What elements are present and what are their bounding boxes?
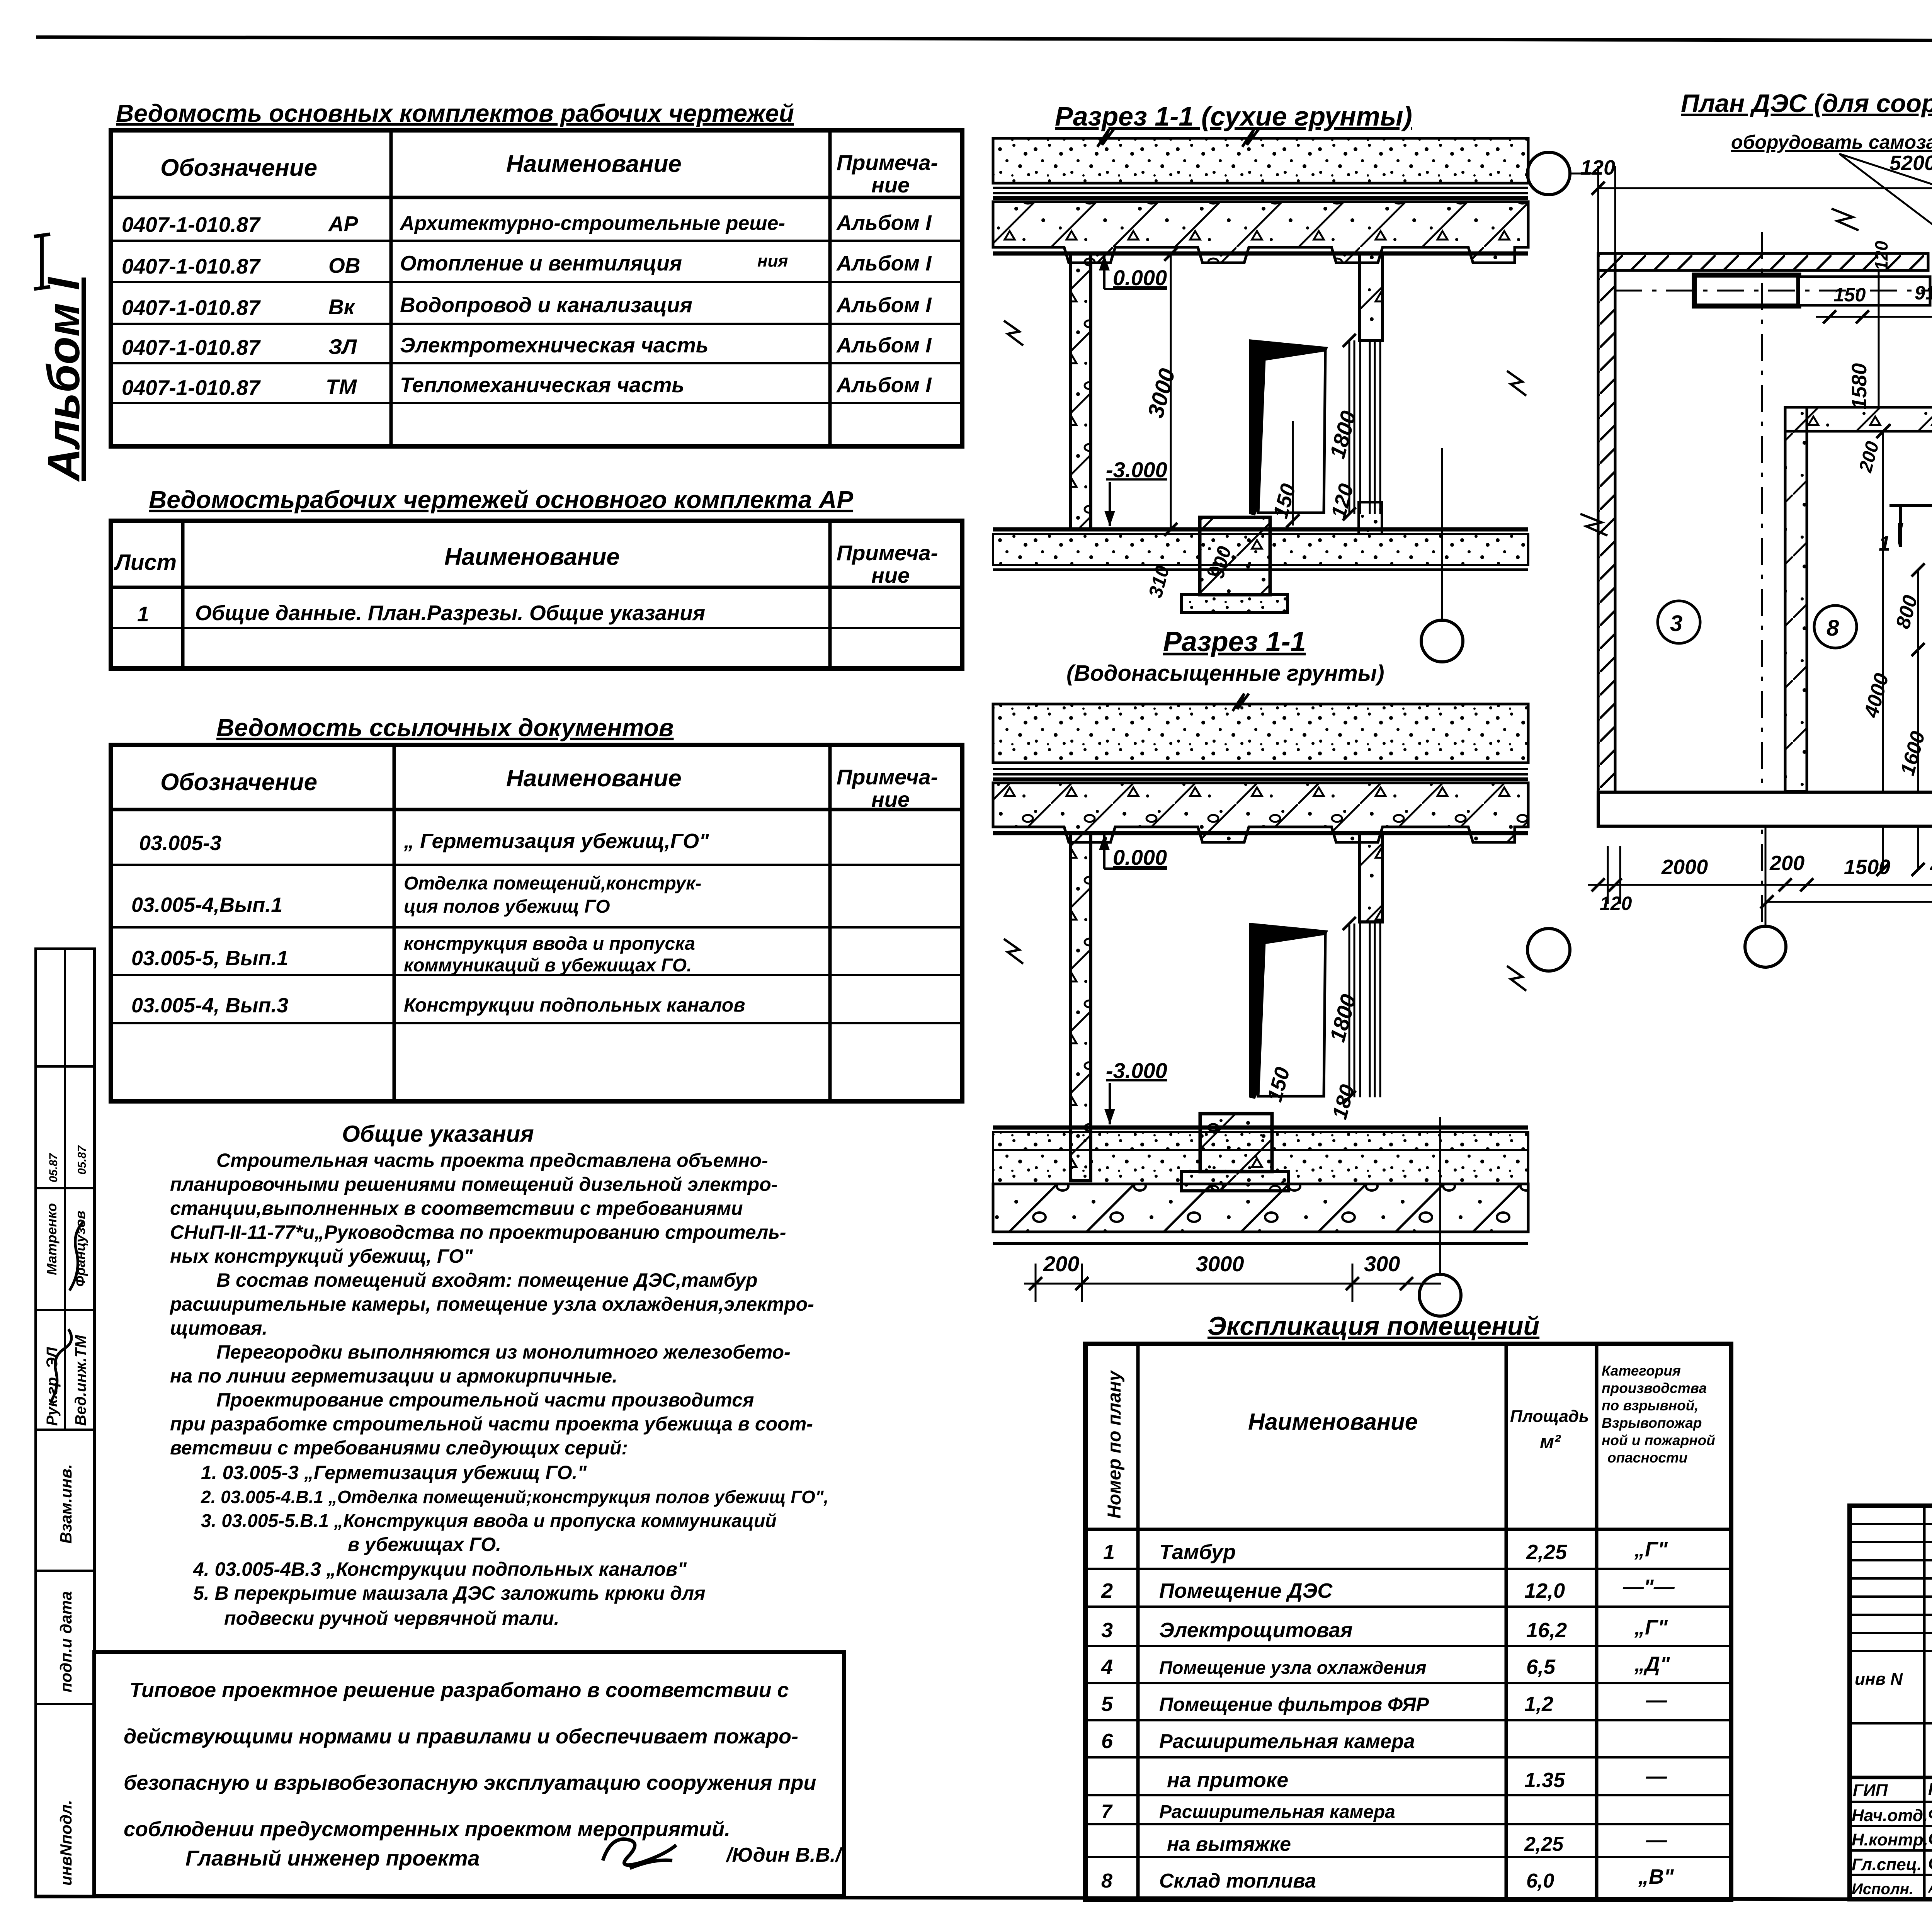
svg-text:м²: м² (1540, 1431, 1561, 1452)
section1 dim 1800 (1349, 340, 1350, 514)
svg-text:Общие указания: Общие указания (342, 1121, 534, 1147)
section mark 1 left (1889, 504, 1932, 507)
section2 foundation block (1200, 1114, 1272, 1172)
svg-text:Экспликация помещений: Экспликация помещений (1207, 1311, 1539, 1341)
svg-text:3. 03.005-5.В.1 „Конструкция в: 3. 03.005-5.В.1 „Конструкция ввода и про… (201, 1511, 777, 1531)
svg-text:Ведомость ссылочных документов: Ведомость ссылочных документов (216, 714, 674, 742)
svg-text:инвNподл.: инвNподл. (57, 1800, 75, 1886)
svg-text:6: 6 (1101, 1730, 1113, 1753)
svg-text:1: 1 (1103, 1541, 1115, 1564)
section2 roof lines (993, 769, 1528, 779)
svg-text:Разрез 1-1 (сухие грунты): Разрез 1-1 (сухие грунты) (1055, 101, 1412, 131)
section2 level -3.000 (1104, 1058, 1167, 1124)
svg-text:05.87: 05.87 (76, 1145, 88, 1175)
plan left wall (brick) (1598, 253, 1615, 793)
svg-text:0.000: 0.000 (1113, 845, 1167, 869)
svg-text:-3.000: -3.000 (1106, 457, 1167, 482)
svg-text:Наименование: Наименование (444, 544, 620, 570)
svg-text:„Г": „Г" (1634, 1538, 1668, 1561)
section2 left wall (1071, 833, 1091, 1181)
svg-text:безопасную и взрывобезопасную: безопасную и взрывобезопасную эксплуатац… (124, 1771, 816, 1794)
svg-text:2000: 2000 (1661, 855, 1708, 879)
svg-text:Вед.инж.ТМ: Вед.инж.ТМ (72, 1334, 89, 1426)
svg-text:910: 910 (1915, 282, 1932, 304)
svg-text:120: 120 (1600, 893, 1632, 914)
section2 door frame (1354, 923, 1380, 1097)
svg-text:производства: производства (1602, 1380, 1707, 1396)
svg-text:03.005-4, Вып.3: 03.005-4, Вып.3 (131, 994, 288, 1017)
svg-text:3: 3 (1101, 1619, 1113, 1642)
svg-text:—: — (1646, 1828, 1667, 1852)
svg-text:Тамбур: Тамбур (1159, 1541, 1236, 1564)
svg-text:ветствии с требованиями следую: ветствии с требованиями следующих серий: (170, 1437, 628, 1459)
room8 circle (1814, 605, 1857, 648)
svg-text:(Водонасыщенные грунты): (Водонасыщенные грунты) (1066, 661, 1384, 686)
section1 break marks walls (1004, 321, 1023, 345)
svg-text:Главный инженер проекта: Главный инженер проекта (185, 1846, 480, 1870)
svg-text:АР: АР (328, 212, 358, 236)
section1 floor (993, 527, 1528, 532)
section1 ceiling line (993, 252, 1528, 256)
svg-text:0407-1-010.87: 0407-1-010.87 (122, 376, 261, 400)
svg-text:6,5: 6,5 (1526, 1655, 1556, 1679)
svg-text:-3.000: -3.000 (1106, 1058, 1167, 1083)
svg-text:Помещение ДЭС: Помещение ДЭС (1159, 1579, 1333, 1602)
svg-text:Категория: Категория (1602, 1363, 1681, 1379)
svg-text:1500: 1500 (1844, 855, 1890, 879)
svg-text:Площадь: Площадь (1510, 1407, 1589, 1426)
svg-text:—"—: —"— (1622, 1575, 1675, 1599)
svg-text:Ведомостьрабочих чертежей осно: Ведомостьрабочих чертежей основного комп… (149, 486, 853, 514)
section1 right wall above door (1359, 253, 1383, 340)
svg-text:СНиП-II-11-77*и„Руководства по: СНиП-II-11-77*и„Руководства по проектиро… (170, 1221, 786, 1243)
svg-text:ОВ: ОВ (328, 253, 361, 277)
svg-text:Примеча-: Примеча- (837, 541, 938, 565)
plan top wall left segment (1598, 253, 1928, 270)
svg-text:подвески ручной червячной тали: подвески ручной червячной тали. (224, 1607, 560, 1629)
svg-text:0.000: 0.000 (1113, 265, 1167, 290)
svg-text:ние: ние (871, 173, 910, 197)
svg-text:ной и пожарной: ной и пожарной (1602, 1432, 1715, 1448)
section1 dim 3000 (1170, 254, 1172, 529)
section1 roof lines (993, 188, 1528, 198)
svg-text:Взрывопожар: Взрывопожар (1602, 1415, 1702, 1431)
vertical wall A room3/8 (1785, 407, 1807, 791)
svg-text:подп.и дата: подп.и дата (57, 1591, 75, 1692)
axis circles bottom (1745, 926, 1786, 967)
svg-text:Отопление и вентиляция: Отопление и вентиляция (400, 251, 682, 275)
svg-text:Перегородки выполняются из мон: Перегородки выполняются из монолитного ж… (216, 1341, 791, 1363)
section2 right wall above door (1359, 833, 1383, 922)
leader lines lock note (1839, 154, 1932, 253)
section2 axis circle (1419, 1274, 1461, 1316)
svg-text:12,0: 12,0 (1524, 1579, 1565, 1602)
section2 dim 1800 (1349, 923, 1350, 1097)
bottom-left note box (94, 1652, 844, 1896)
svg-text:Отделка помещений,конструк-: Отделка помещений,конструк- (404, 873, 701, 894)
plan axis dash-dot vertical room3 (1761, 232, 1763, 927)
svg-text:Разрез 1-1: Разрез 1-1 (1163, 626, 1306, 657)
svg-text:ных конструкций убежищ, ГО": ных конструкций убежищ, ГО" (170, 1245, 473, 1267)
svg-text:соблюдении предусмотренных про: соблюдении предусмотренных проектом меро… (124, 1818, 730, 1841)
section1 level mark 0.000 (1099, 255, 1167, 290)
section1 foundation block (1200, 517, 1270, 595)
sheet frame bottom (35, 1896, 1932, 1900)
svg-text:Андронычева: Андронычева (1928, 1881, 1932, 1896)
svg-text:8: 8 (1827, 616, 1839, 641)
svg-text:Исполн.: Исполн. (1852, 1881, 1913, 1898)
svg-text:1580: 1580 (1848, 363, 1871, 410)
svg-text:Тепломеханическая часть: Тепломеханическая часть (400, 373, 684, 397)
svg-text:станции,выполненных в соответс: станции,выполненных в соответствии с тре… (170, 1197, 743, 1219)
svg-text:Гл.спец.: Гл.спец. (1852, 1855, 1922, 1874)
svg-text:300: 300 (1364, 1252, 1400, 1276)
svg-text:1: 1 (137, 602, 149, 626)
svg-text:ние: ние (871, 563, 910, 587)
section1 door leaf (1249, 339, 1328, 515)
общие указания paragraph (169, 1150, 828, 1629)
svg-text:коммуникаций в убежищах ГО.: коммуникаций в убежищах ГО. (404, 955, 692, 976)
svg-text:Проектирование строительной ча: Проектирование строительной части произв… (216, 1389, 754, 1411)
svg-text:/Юдин В.В./: /Юдин В.В./ (726, 1844, 843, 1866)
svg-text:опасности: опасности (1607, 1450, 1687, 1466)
svg-text:1. 03.005-3 „Герметизация убеж: 1. 03.005-3 „Герметизация убежищ ГО." (201, 1462, 587, 1483)
svg-text:8: 8 (1101, 1870, 1112, 1892)
svg-text:2,25: 2,25 (1526, 1541, 1567, 1564)
svg-text:Н.контр.: Н.контр. (1852, 1830, 1928, 1849)
svg-text:150: 150 (1833, 284, 1866, 306)
top dim chain (1580, 148, 1932, 179)
svg-text:ГИП: ГИП (1853, 1781, 1888, 1800)
svg-text:расширительные камеры, помещен: расширительные камеры, помещение узла ох… (169, 1293, 814, 1315)
section2 floor layers (993, 1126, 1528, 1130)
svg-text:Альбом I: Альбом I (836, 293, 932, 317)
svg-text:5: 5 (1101, 1692, 1113, 1716)
svg-text:План ДЭС (для сооружений с 3мя: План ДЭС (для сооружений с 3мя режимами … (1681, 89, 1932, 117)
section1 axis circle (1421, 620, 1463, 662)
svg-text:—: — (1646, 1765, 1667, 1788)
svg-text:05.87: 05.87 (47, 1153, 60, 1182)
svg-text:5. В перекрытие машзала ДЭС за: 5. В перекрытие машзала ДЭС заложить крю… (193, 1582, 706, 1604)
svg-text:„ Герметизация убежищ,ГО": „ Герметизация убежищ,ГО" (403, 830, 709, 853)
svg-text:1: 1 (1879, 532, 1890, 555)
svg-text:„Д": „Д" (1634, 1653, 1670, 1676)
svg-text:2. 03.005-4.В.1 „Отделка помещ: 2. 03.005-4.В.1 „Отделка помещений;конст… (201, 1487, 828, 1507)
svg-text:Номер по плану: Номер по плану (1104, 1370, 1125, 1519)
section1 door frame (1354, 340, 1380, 514)
svg-text:Юдин: Юдин (1928, 1780, 1932, 1799)
svg-text:0407-1-010.87: 0407-1-010.87 (122, 213, 261, 236)
svg-text:Рук.гр. ЭЛ: Рук.гр. ЭЛ (44, 1347, 61, 1426)
svg-text:1,2: 1,2 (1524, 1692, 1553, 1716)
section1 level mark -3.000 (1104, 457, 1167, 526)
svg-text:—: — (1646, 1689, 1667, 1712)
svg-text:Архитектурно-строительные реше: Архитектурно-строительные реше- (399, 212, 785, 235)
svg-text:4. 03.005-4В.3 „Конструкции по: 4. 03.005-4В.3 „Конструкции подпольных к… (193, 1558, 687, 1580)
svg-text:Строительная часть проекта пре: Строительная часть проекта представлена … (216, 1150, 768, 1171)
section2 break marks (1004, 939, 1023, 964)
section2 ribbed slab (993, 783, 1528, 842)
svg-text:Расширительная камера: Расширительная камера (1159, 1730, 1415, 1753)
svg-text:Наименование: Наименование (1248, 1409, 1418, 1435)
section1 ground band (993, 129, 1528, 183)
svg-text:Матренко: Матренко (44, 1203, 60, 1275)
svg-text:Наименование: Наименование (506, 765, 682, 792)
svg-text:Примеча-: Примеча- (837, 150, 938, 175)
svg-text:03.005-5, Вып.1: 03.005-5, Вып.1 (131, 947, 288, 970)
break marks plan (1832, 209, 1859, 230)
svg-text:щитовая.: щитовая. (170, 1317, 267, 1339)
svg-text:Наименование: Наименование (506, 151, 682, 177)
section2 bottom dims 200 3000 300 (1043, 1252, 1400, 1276)
svg-text:по взрывной,: по взрывной, (1602, 1398, 1699, 1413)
svg-text:В состав помещений входят: пом: В состав помещений входят: помещение ДЭС… (216, 1269, 758, 1291)
svg-text:Помещение фильтров ФЯР: Помещение фильтров ФЯР (1159, 1694, 1429, 1715)
svg-text:120: 120 (1871, 241, 1891, 270)
sheet frame top (36, 37, 1932, 42)
svg-text:Альбом I: Альбом I (836, 251, 932, 275)
svg-text:ция полов убежищ ГО: ция полов убежищ ГО (404, 896, 610, 917)
svg-text:конструкция ввода и пропуска: конструкция ввода и пропуска (404, 934, 695, 954)
svg-text:0407-1-010.87: 0407-1-010.87 (122, 296, 261, 320)
svg-text:Степнов: Степнов (1928, 1829, 1932, 1848)
svg-text:Расширительная камера: Расширительная камера (1159, 1802, 1395, 1822)
section2 ground band (993, 704, 1528, 763)
svg-text:в убежищах ГО.: в убежищах ГО. (348, 1534, 501, 1555)
svg-text:на по линии герметизации и арм: на по линии герметизации и армокирпичные… (170, 1365, 617, 1387)
svg-text:Лист: Лист (114, 550, 177, 575)
bottom wall (1598, 792, 1932, 826)
svg-text:Электрощитовая: Электрощитовая (1159, 1619, 1353, 1642)
svg-text:Обозначение: Обозначение (160, 155, 317, 181)
svg-text:ТМ: ТМ (326, 375, 357, 399)
section1 ribbed slab (993, 202, 1528, 263)
section2 ceiling line (993, 831, 1528, 835)
svg-text:Альбом I: Альбом I (836, 373, 932, 397)
svg-text:Водопровод и канализация: Водопровод и канализация (400, 293, 692, 317)
plan entrance box 1 (1694, 275, 1799, 306)
svg-text:Типовое проектное решение разр: Типовое проектное решение разработано в … (129, 1679, 789, 1702)
svg-text:ЗЛ: ЗЛ (328, 335, 357, 359)
section1 left wall (1071, 253, 1091, 529)
svg-text:Конструкции подпольных каналов: Конструкции подпольных каналов (404, 994, 745, 1016)
svg-text:3: 3 (1670, 611, 1682, 636)
svg-text:действующими нормами и правила: действующими нормами и правилами и обесп… (124, 1725, 798, 1748)
plan axis dash-dot horizontal (1615, 290, 1932, 292)
svg-text:на притоке: на притоке (1167, 1769, 1288, 1792)
svg-text:Помещение узла охлаждения: Помещение узла охлаждения (1159, 1657, 1426, 1678)
svg-text:200: 200 (1930, 852, 1932, 875)
svg-text:Взам.инв.: Взам.инв. (57, 1464, 75, 1544)
svg-text:7: 7 (1101, 1801, 1113, 1822)
room3 circle (1658, 601, 1700, 643)
sheet frame left lower (93, 947, 96, 1897)
svg-text:„Г": „Г" (1634, 1616, 1668, 1639)
svg-text:3000: 3000 (1196, 1252, 1244, 1276)
svg-text:5200: 5200 (1889, 151, 1932, 175)
svg-text:Склад топлива: Склад топлива (1159, 1870, 1316, 1892)
svg-text:Обозначение: Обозначение (160, 769, 317, 796)
svg-text:Электротехническая часть: Электротехническая часть (400, 333, 709, 357)
svg-text:Степнов: Степнов (1928, 1854, 1932, 1873)
svg-text:200: 200 (1043, 1252, 1079, 1276)
svg-text:2: 2 (1101, 1579, 1113, 1602)
svg-text:03.005-3: 03.005-3 (139, 832, 221, 855)
svg-text:Общие данные. План.Разрезы. Об: Общие данные. План.Разрезы. Общие указан… (195, 601, 705, 625)
svg-text:6,0: 6,0 (1526, 1870, 1554, 1892)
svg-text:0407-1-010.87: 0407-1-010.87 (122, 335, 261, 359)
svg-text:Вк: Вк (328, 295, 356, 319)
section2 door leaf (1249, 923, 1328, 1099)
svg-text:1.35: 1.35 (1524, 1769, 1565, 1792)
svg-text:Ведомость основных комплектов: Ведомость основных комплектов рабочих че… (116, 99, 794, 127)
svg-text:2,25: 2,25 (1524, 1833, 1564, 1855)
bottom dim chain (1661, 850, 1932, 879)
svg-text:инв N: инв N (1855, 1670, 1903, 1689)
axis circles left (1527, 152, 1570, 195)
svg-text:на вытяжке: на вытяжке (1167, 1833, 1291, 1855)
svg-text:планировочными решениями помещ: планировочными решениями помещений дизел… (170, 1173, 777, 1195)
svg-text:Альбом I: Альбом I (38, 277, 89, 482)
svg-text:ние: ние (871, 787, 910, 811)
section1 door sill block (1359, 502, 1382, 534)
svg-text:Примеча-: Примеча- (837, 765, 938, 789)
left margin stamp strip (36, 949, 94, 1897)
svg-text:при разработке строительной ча: при разработке строительной части проект… (170, 1413, 813, 1435)
svg-text:200: 200 (1769, 852, 1804, 875)
svg-text:Нач.отд.: Нач.отд. (1852, 1806, 1928, 1825)
svg-text:ния: ния (757, 252, 788, 270)
svg-text:0407-1-010.87: 0407-1-010.87 (122, 254, 261, 278)
svg-text:03.005-4,Вып.1: 03.005-4,Вып.1 (131, 893, 282, 917)
main horizontal wall (1785, 407, 1932, 431)
section2 level 0.000 (1099, 835, 1167, 869)
svg-text:16,2: 16,2 (1526, 1619, 1567, 1642)
svg-text:„В": „В" (1638, 1865, 1674, 1888)
svg-text:оборудовать самозапирающимся з: оборудовать самозапирающимся замком (1731, 131, 1932, 153)
svg-text:Альбом I: Альбом I (836, 211, 932, 235)
svg-text:Альбом I: Альбом I (836, 333, 932, 357)
svg-text:4: 4 (1101, 1655, 1113, 1679)
svg-text:Федотов: Федотов (1928, 1805, 1932, 1824)
